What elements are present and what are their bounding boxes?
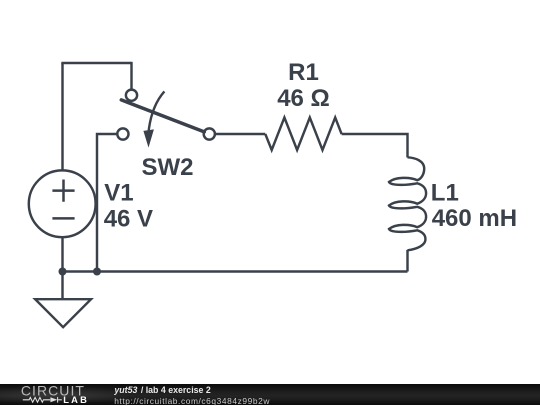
inductor L1	[389, 157, 426, 250]
footer bar	[0, 384, 540, 405]
switch SW2 actuation arrow	[143, 91, 164, 147]
label 46 V	[104, 205, 153, 232]
svg-text:LAB: LAB	[63, 395, 89, 405]
wire switch right terminal to resistor	[215, 133, 265, 135]
svg-text:460 mH: 460 mH	[432, 205, 517, 232]
svg-text:46 V: 46 V	[104, 205, 153, 232]
switch SW2 right terminal circle	[204, 128, 215, 139]
svg-text:R1: R1	[288, 59, 319, 86]
CircuitLab logo	[0, 384, 110, 405]
wire resistor to top-right corner	[342, 134, 408, 158]
wire top-left vertical (V1 plus to corner)	[61, 63, 63, 171]
label 46 Ω	[277, 85, 330, 112]
label R1	[288, 59, 319, 86]
wire top horizontal	[61, 62, 131, 64]
footer url text	[114, 396, 270, 406]
label SW2	[142, 154, 194, 181]
label L1	[431, 180, 459, 207]
ground	[35, 299, 91, 327]
svg-text:V1: V1	[104, 180, 133, 207]
resistor R1	[265, 118, 341, 151]
footer title text	[114, 385, 210, 395]
switch SW2 left terminal circle	[117, 128, 128, 139]
switch SW2 blade	[121, 100, 204, 132]
wire inductor bottom	[406, 250, 408, 272]
switch SW2 top terminal circle	[126, 90, 137, 101]
wire down to switch common	[130, 62, 132, 89]
svg-text:L1: L1	[431, 180, 459, 207]
wire V1 minus to junction	[61, 237, 63, 272]
wire ground stem	[61, 272, 63, 300]
svg-text:SW2: SW2	[142, 154, 194, 181]
label 460 mH	[432, 205, 517, 232]
junction node left	[59, 268, 67, 276]
label V1	[104, 180, 133, 207]
wire bottom horizontal	[63, 270, 408, 272]
wire switch left terminal to lower-left corner	[97, 134, 117, 272]
junction node right	[93, 268, 101, 276]
svg-text:46 Ω: 46 Ω	[277, 85, 330, 112]
voltage source V1	[29, 170, 96, 237]
